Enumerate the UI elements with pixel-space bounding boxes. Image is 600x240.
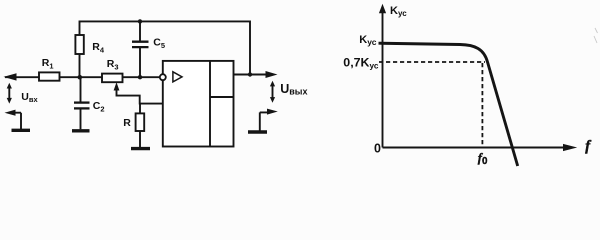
svg-text:C5: C5	[153, 37, 165, 51]
svg-text:Uвых: Uвых	[280, 82, 307, 97]
svg-text:f: f	[585, 138, 592, 154]
svg-text:Kус: Kус	[390, 5, 407, 18]
svg-text:R3: R3	[107, 58, 119, 72]
svg-text:Kус: Kус	[359, 34, 376, 47]
svg-text:R1: R1	[42, 57, 54, 71]
svg-text:Uвх: Uвх	[21, 91, 38, 104]
svg-text:f0: f0	[478, 151, 488, 167]
svg-text:R4: R4	[92, 41, 105, 55]
svg-text:R: R	[123, 117, 131, 129]
svg-text:0,7Kус: 0,7Kус	[343, 56, 379, 71]
svg-text:0: 0	[374, 141, 381, 155]
svg-text:C2: C2	[93, 100, 105, 114]
